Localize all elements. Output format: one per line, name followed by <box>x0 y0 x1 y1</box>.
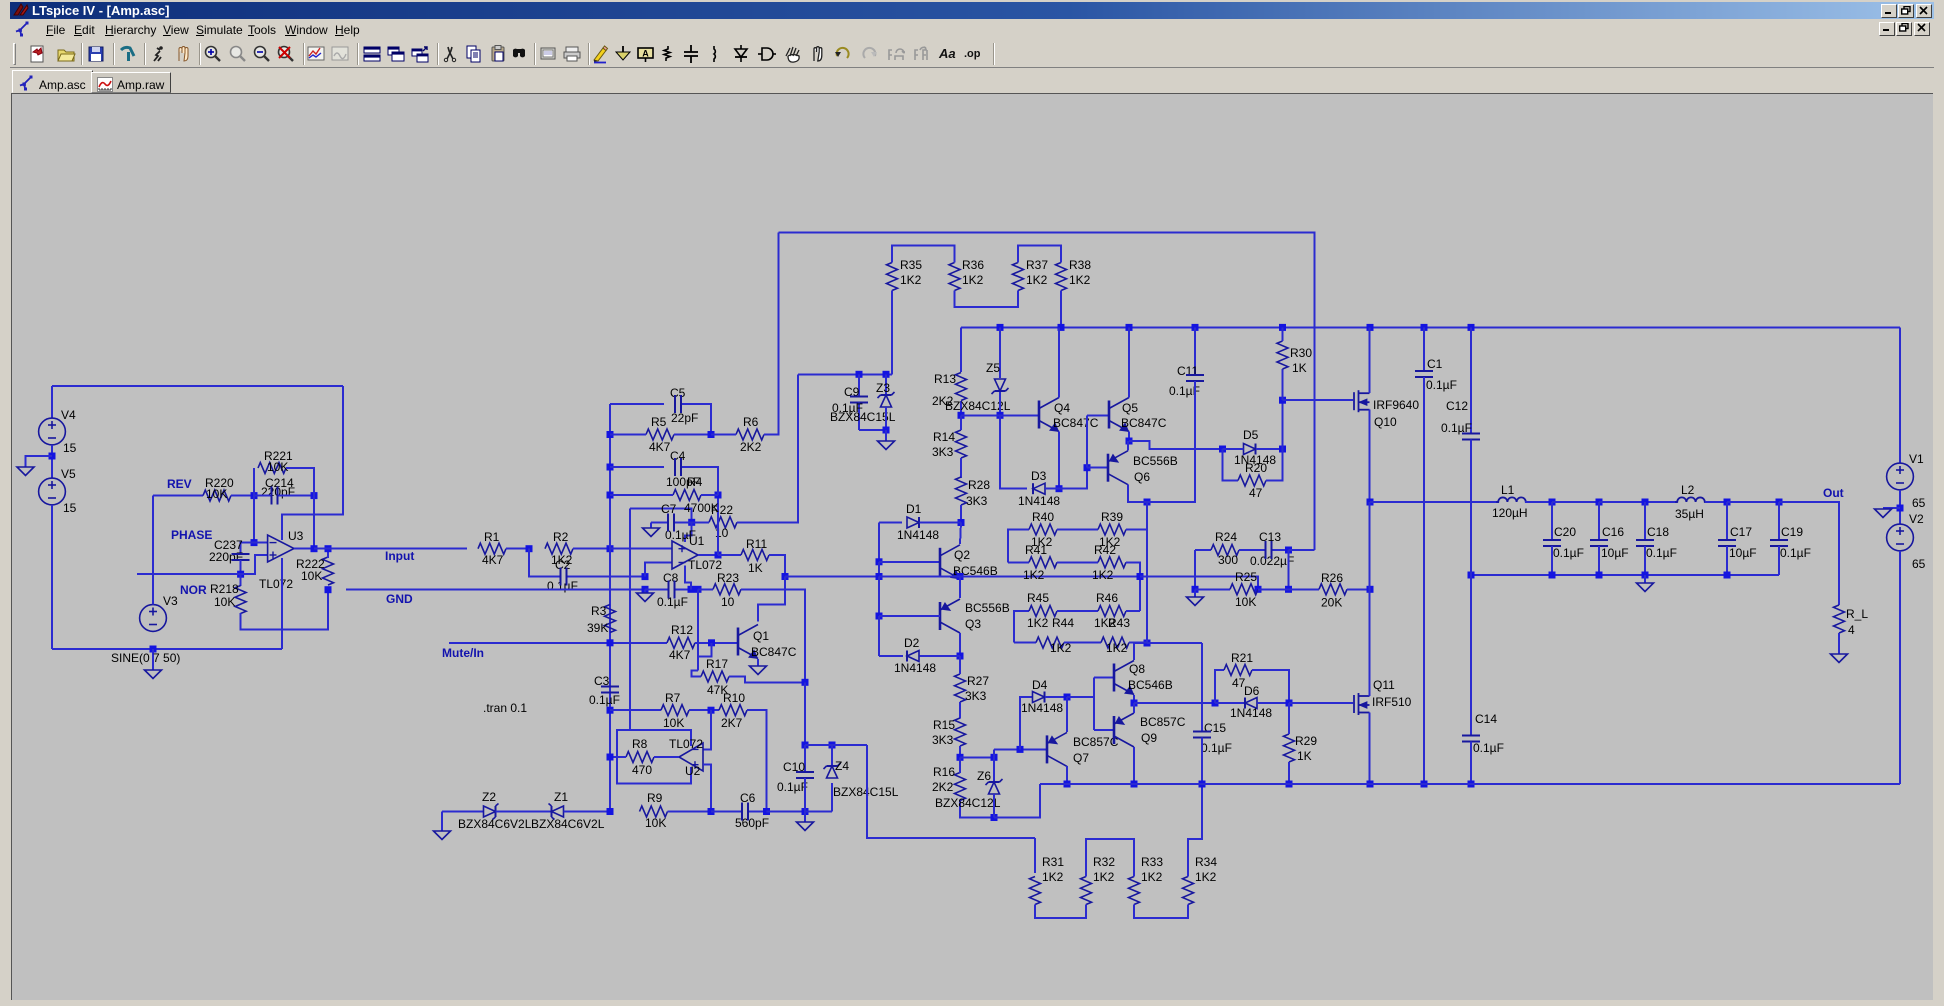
wire to C6 <box>711 811 741 813</box>
svg-text:R32: R32 <box>1093 855 1115 869</box>
svg-text:C16: C16 <box>1602 525 1624 539</box>
node C8 right junction <box>688 586 695 593</box>
wire R21 right <box>1252 670 1289 703</box>
svg-text:R45: R45 <box>1027 591 1049 605</box>
svg-text:BZX84C6V2L: BZX84C6V2L <box>458 817 532 831</box>
svg-text:3K3: 3K3 <box>932 445 954 459</box>
resistor R42 <box>1098 557 1126 568</box>
node R5/R6 junction <box>708 431 715 438</box>
wire R11 right <box>769 555 785 577</box>
capacitor C13 body <box>1266 541 1272 559</box>
ground <box>750 666 767 675</box>
wire Q7 collector down <box>1066 766 1068 784</box>
ground <box>878 441 895 450</box>
wire to R26 <box>1289 588 1320 590</box>
svg-text:R2: R2 <box>553 530 569 544</box>
wire Q10 bottom pin <box>1369 410 1371 502</box>
svg-text:C12: C12 <box>1446 399 1468 413</box>
svg-text:V3: V3 <box>163 594 178 608</box>
resistor R22 <box>709 517 737 528</box>
node <box>1596 572 1603 579</box>
node <box>1421 781 1428 788</box>
wire V1 top <box>1899 327 1901 463</box>
wire R41-R42 <box>1057 561 1098 563</box>
wire R31 top <box>1034 838 1036 873</box>
wire top feedback rail <box>779 233 1315 551</box>
resistor R32 <box>1081 877 1092 905</box>
ground <box>17 467 34 476</box>
wire +65V rail <box>961 326 1900 328</box>
wire R40 left U <box>1008 530 1029 563</box>
wire R7-R10 <box>689 709 719 711</box>
svg-text:10K: 10K <box>1235 595 1256 609</box>
svg-text:R9: R9 <box>647 791 663 805</box>
wire main to R25 <box>1140 577 1258 590</box>
wire R38 bottom <box>1060 291 1062 328</box>
resistor R46 <box>1098 606 1126 617</box>
wire Q10 gate row <box>1283 399 1354 401</box>
wire to ground <box>1883 507 1900 509</box>
wire to top rail column <box>1289 549 1315 551</box>
svg-text:10K: 10K <box>214 595 235 609</box>
diode D2 <box>907 651 919 662</box>
voltage source V5 <box>39 478 66 505</box>
inductor L1 body <box>1496 497 1528 502</box>
wire L2 right <box>1705 501 1727 503</box>
wire to U2 -in <box>703 710 711 749</box>
svg-text:L1: L1 <box>1501 483 1515 497</box>
node C10/Z4 junction <box>802 742 809 749</box>
svg-text:0.1µF: 0.1µF <box>1553 546 1584 560</box>
svg-text:GND: GND <box>386 592 413 606</box>
resistor R36 <box>949 263 960 291</box>
wire to R218 <box>240 574 242 586</box>
wire gnd stub <box>804 812 806 823</box>
svg-text:D2: D2 <box>904 636 920 650</box>
wire to C237 top <box>241 543 254 554</box>
wire R5 left <box>610 434 646 436</box>
wire to D3 <box>1000 415 1027 488</box>
node Q6/C11/R39 junction <box>1144 499 1151 506</box>
svg-text:V5: V5 <box>61 467 76 481</box>
op-amp U1 <box>672 541 698 569</box>
wire C9 top stub <box>858 374 860 396</box>
capacitor C6 body <box>742 803 748 821</box>
svg-text:R44: R44 <box>1052 616 1074 630</box>
resistor R6 <box>736 429 764 440</box>
node D3 right junction <box>1056 485 1063 492</box>
svg-text:0.1µF: 0.1µF <box>657 595 688 609</box>
wire to R22 <box>692 521 709 523</box>
resistor R38 <box>1056 263 1067 291</box>
node Q5/Q6 emitter junction <box>1126 438 1133 445</box>
resistor R41 <box>1029 557 1057 568</box>
capacitor C2 body <box>560 568 566 586</box>
wire R221 left leg <box>253 468 255 496</box>
wire Z4 bottom <box>831 783 833 812</box>
wire C14 bottom <box>1470 742 1472 785</box>
wire Q6 base <box>1087 467 1108 469</box>
transistor Q5 <box>1109 398 1129 432</box>
wire Q4 collector <box>1058 327 1060 397</box>
svg-text:SINE(0 7 50): SINE(0 7 50) <box>111 651 180 665</box>
svg-text:U3: U3 <box>288 529 304 543</box>
svg-text:2K2: 2K2 <box>932 780 954 794</box>
svg-text:4700K: 4700K <box>684 501 719 515</box>
wire to R11 <box>718 554 741 556</box>
svg-text:TL072: TL072 <box>259 577 293 591</box>
wire V2 bottom <box>1899 551 1901 784</box>
svg-text:C18: C18 <box>1647 525 1669 539</box>
svg-text:300: 300 <box>1218 553 1238 567</box>
wire C18 top <box>1644 502 1646 540</box>
svg-text:220pF: 220pF <box>209 550 243 564</box>
svg-text:1N4148: 1N4148 <box>1021 701 1063 715</box>
ground <box>643 528 660 537</box>
wire R32-R33 top bridge <box>1086 839 1134 877</box>
wire R15 bottom <box>959 746 961 757</box>
svg-text:BC847C: BC847C <box>1053 416 1099 430</box>
svg-text:0.1µF: 0.1µF <box>1473 741 1504 755</box>
wire V+ frame top <box>52 385 343 387</box>
svg-text:1K2: 1K2 <box>962 273 984 287</box>
ground <box>1831 654 1848 663</box>
wire up to gate node <box>1282 400 1284 449</box>
wire <box>1552 501 1599 503</box>
node C20 top <box>1549 499 1556 506</box>
svg-text:560pF: 560pF <box>735 816 769 830</box>
wire to R8 <box>610 756 626 758</box>
wire R40-R39 <box>1057 529 1098 531</box>
wire Q8 base <box>1094 677 1114 679</box>
wire emitter row <box>1134 702 1215 704</box>
ground <box>1637 583 1654 592</box>
wire R2 to junction <box>573 548 610 550</box>
capacitor C214 body <box>272 487 278 505</box>
node <box>1279 324 1286 331</box>
node C10 bottom junction <box>802 808 809 815</box>
ground <box>1187 597 1204 606</box>
wire Q6 collector column <box>1146 502 1148 643</box>
node R24/gnd junction <box>1192 586 1199 593</box>
wire C5 right <box>682 404 711 435</box>
wire U2 V- path <box>617 508 691 783</box>
wire to Z4 <box>805 811 832 813</box>
wire to Z2 <box>442 811 484 813</box>
wire V4 top stub <box>51 386 53 419</box>
transistor Q3 <box>940 599 960 633</box>
window title bar <box>10 2 1934 19</box>
node R1/R2 junction <box>526 545 533 552</box>
wire C9/Z3 bottom <box>859 429 886 431</box>
wire R33-R34 bottom bridge <box>1134 905 1188 919</box>
resistor R5 <box>646 429 674 440</box>
wire C18 bottom <box>1644 546 1646 575</box>
wire Q3 emitter <box>959 577 961 599</box>
wire C11 bottom <box>1147 381 1195 502</box>
node R222 bottom junction <box>325 586 332 593</box>
svg-text:0.1µF: 0.1µF <box>1646 546 1677 560</box>
resistor R1 <box>478 543 506 554</box>
node D6/R29 junction <box>1286 700 1293 707</box>
svg-text:D4: D4 <box>1032 678 1048 692</box>
svg-text:R25: R25 <box>1235 570 1257 584</box>
svg-text:1K: 1K <box>1292 361 1307 375</box>
MOSFET Q10 IRF9640 <box>1354 390 1370 412</box>
ground <box>1875 509 1892 518</box>
node main drive junction <box>782 573 789 580</box>
svg-text:L2: L2 <box>1681 483 1695 497</box>
capacitor C18 body <box>1636 540 1654 546</box>
node <box>1286 781 1293 788</box>
node <box>997 324 1004 331</box>
wire Z1 right <box>564 811 611 813</box>
node output rail junction <box>1367 499 1374 506</box>
svg-text:Q2: Q2 <box>954 548 970 562</box>
capacitor C12 body <box>1462 434 1480 440</box>
wire U1 V- pin <box>685 566 691 590</box>
capacitor C8 body <box>668 580 674 598</box>
inductor L2 body <box>1675 497 1707 502</box>
transistor Q8 <box>1114 661 1134 695</box>
svg-text:C14: C14 <box>1475 712 1497 726</box>
node <box>1367 324 1374 331</box>
wire R39 right <box>1126 502 1147 530</box>
wire R218 bottom feedback <box>241 590 328 630</box>
node <box>1642 572 1649 579</box>
resistor R21 <box>1224 665 1252 676</box>
node R43/C15 junction <box>1144 640 1151 647</box>
transistor Q6 <box>1108 451 1128 485</box>
wire Q7 emitter up <box>1066 697 1068 732</box>
svg-text:Z3: Z3 <box>876 381 890 395</box>
wire R34 top to -rail <box>1188 784 1202 877</box>
resistor R25 <box>1230 584 1258 595</box>
wire C7 left <box>651 521 667 523</box>
wire C1 bottom <box>1423 377 1425 784</box>
wire D4 right <box>1045 696 1067 698</box>
svg-text:1N4148: 1N4148 <box>1230 706 1272 720</box>
svg-text:1N4148: 1N4148 <box>894 661 936 675</box>
transistor Q2 <box>940 545 960 579</box>
zener Z2 <box>484 804 499 820</box>
svg-text:PHASE: PHASE <box>171 528 212 542</box>
wire R36-R37 bottom bridge <box>955 291 1019 307</box>
svg-text:D5: D5 <box>1243 428 1259 442</box>
wire R14-R28 <box>960 458 962 478</box>
svg-text:BZX84C12L: BZX84C12L <box>935 796 1001 810</box>
node <box>1131 781 1138 788</box>
node D5 left junction <box>1219 446 1226 453</box>
wire to R25 <box>1195 588 1230 590</box>
svg-text:R6: R6 <box>743 415 759 429</box>
svg-text:1K: 1K <box>1297 749 1312 763</box>
wire to R23 <box>698 588 713 590</box>
svg-text:D1: D1 <box>906 502 922 516</box>
wire V5- down <box>51 505 53 649</box>
wire to Q6 base <box>1059 468 1087 489</box>
svg-text:BC847C: BC847C <box>751 645 797 659</box>
node main/R42/R46 junction <box>1137 573 1144 580</box>
resistor R_L <box>1834 605 1845 633</box>
wire R22 to +rail <box>737 374 798 522</box>
svg-text:20K: 20K <box>1321 596 1342 610</box>
wire D2 right <box>920 655 961 657</box>
resistor R8 <box>626 752 654 763</box>
node C19 top <box>1776 499 1783 506</box>
wire Z5 bottom <box>999 392 1001 415</box>
ground <box>797 822 814 831</box>
node <box>607 431 614 438</box>
resistor R30 <box>1277 341 1288 369</box>
wire R16 top <box>959 757 961 773</box>
wire Q5 base <box>1087 414 1109 416</box>
svg-text:65: 65 <box>1912 496 1926 510</box>
wire R42 right <box>1126 562 1140 611</box>
wire D1 to junction <box>920 522 962 524</box>
wire GND rail <box>346 588 645 590</box>
wire R44-R43 <box>1064 642 1101 644</box>
wire R35 bottom <box>891 291 893 375</box>
wire to Q1 collector <box>758 577 785 622</box>
wire to R31 chain <box>867 745 1035 838</box>
wire R24 left stub <box>1195 549 1211 551</box>
svg-text:BC546B: BC546B <box>1128 678 1173 692</box>
wire to Q11 gate <box>1289 702 1353 704</box>
svg-text:2K2: 2K2 <box>740 440 762 454</box>
svg-text:R_L: R_L <box>1846 607 1868 621</box>
wire gnd stub <box>644 589 646 593</box>
svg-text:R16: R16 <box>933 765 955 779</box>
wire R12 to Q1 base <box>695 642 738 644</box>
wire bottom row left end <box>441 812 443 832</box>
wire Q2 emitter <box>959 577 961 580</box>
wire C20 bottom <box>1551 546 1553 575</box>
wire R25 right <box>1258 588 1289 590</box>
node R13/Z5 row <box>958 412 965 419</box>
wire main signal <box>879 576 1140 578</box>
wire V1-V2 <box>1899 490 1901 524</box>
wire C11 top <box>1194 327 1196 375</box>
resistor R45 <box>1029 606 1057 617</box>
wire D5 right <box>1256 448 1283 450</box>
svg-text:1K2: 1K2 <box>1093 870 1115 884</box>
node U3 output/R222 junction <box>325 545 332 552</box>
node C6/R10 junction <box>763 808 770 815</box>
svg-text:R26: R26 <box>1321 571 1343 585</box>
node REV junction <box>251 492 258 499</box>
svg-text:R30: R30 <box>1290 346 1312 360</box>
wire to D6 <box>1215 702 1245 704</box>
wire to Q8/Q9 base column <box>1067 696 1094 698</box>
svg-text:1K2: 1K2 <box>1027 616 1049 630</box>
svg-text:R8: R8 <box>632 737 648 751</box>
wire V3+ up to REV <box>152 496 154 605</box>
wire C4 left <box>610 466 664 468</box>
resistor R43 <box>1101 637 1129 648</box>
wire R35-R36 top bridge <box>892 245 955 262</box>
wire R13 bottom <box>960 401 962 415</box>
svg-text:Aa: Aa <box>938 46 956 61</box>
wire R_L bottom <box>1838 633 1840 654</box>
svg-text:U1: U1 <box>689 534 705 548</box>
diode D1 <box>907 517 919 528</box>
wire to R6 <box>711 434 736 436</box>
svg-text:1K2: 1K2 <box>1023 568 1045 582</box>
wire R29 top <box>1288 703 1290 734</box>
wire R14 top <box>960 415 962 430</box>
node R25/R26 junction <box>1285 586 1292 593</box>
wire C17 top <box>1726 502 1728 540</box>
wire to R7 <box>610 709 661 711</box>
wire U3 V- pin down <box>281 558 283 649</box>
resistor R28 <box>956 477 967 505</box>
wire R43 right <box>1129 642 1147 644</box>
node Q2 base junction <box>876 558 883 565</box>
svg-text:IRF9640: IRF9640 <box>1373 398 1419 412</box>
svg-text:10K: 10K <box>206 487 227 501</box>
wire output rail <box>1370 501 1499 503</box>
svg-text:1N4148: 1N4148 <box>1018 494 1060 508</box>
resistor R39 <box>1098 524 1126 535</box>
wire R27 top <box>959 656 961 674</box>
node gnd junction <box>883 427 890 434</box>
capacitor C237 body <box>232 554 250 560</box>
wire gnd stub <box>1644 575 1646 583</box>
tab bar <box>10 68 1934 93</box>
wire to C214 <box>254 495 271 497</box>
wire Q8 collector <box>1134 643 1147 660</box>
wire C1 top <box>1423 327 1425 371</box>
wire REV <box>153 495 203 497</box>
wire base column up <box>1086 415 1088 467</box>
node GND/C8 junction <box>642 586 649 593</box>
node R7/R10 junction <box>708 707 715 714</box>
voltage source V1 <box>1887 463 1914 490</box>
capacitor C3 body <box>601 687 619 693</box>
wire R31-R32 bottom bridge <box>1035 905 1086 919</box>
wire D6 right <box>1257 702 1289 704</box>
svg-text:IRF510: IRF510 <box>1372 695 1412 709</box>
wire R221 right leg <box>286 468 314 496</box>
svg-text:R46: R46 <box>1096 591 1118 605</box>
svg-text:R37: R37 <box>1026 258 1048 272</box>
svg-text:470: 470 <box>632 763 652 777</box>
diode D3 <box>1033 483 1045 494</box>
svg-text:0.1µF: 0.1µF <box>547 579 578 593</box>
node C7/R22 junction <box>688 519 695 526</box>
wire C12 bottom <box>1470 440 1472 576</box>
node NOR junction <box>237 571 244 578</box>
transistor Q7 <box>1047 732 1067 766</box>
node V1/V2 junction <box>1897 505 1904 512</box>
wire R26 right <box>1347 588 1370 590</box>
resistor R13 <box>956 373 967 401</box>
node R8 left junction <box>607 754 614 761</box>
node <box>607 492 614 499</box>
wire to Q4 base <box>961 414 1039 416</box>
node C18 top <box>1642 499 1649 506</box>
svg-text:1K2: 1K2 <box>1106 641 1128 655</box>
wire to C8 <box>645 588 667 590</box>
ground <box>145 670 162 679</box>
svg-text:C20: C20 <box>1554 525 1576 539</box>
wire gnd stub <box>885 430 887 441</box>
wire bypass node <box>630 508 692 522</box>
op-amp U2 <box>679 743 703 771</box>
svg-text:BC847C: BC847C <box>1121 416 1167 430</box>
wire to Z6 top <box>960 756 994 758</box>
